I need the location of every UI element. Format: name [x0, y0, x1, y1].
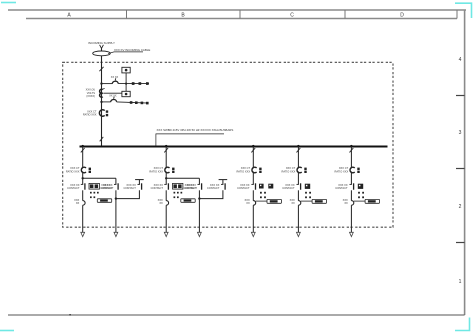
wire: branch 2 to terminals [117, 102, 149, 103]
zone tick 3/2 [456, 168, 465, 170]
relay R3a [259, 184, 264, 189]
zone band bottom rule [26, 18, 457, 20]
terminal T5 [135, 101, 138, 104]
isolating slash F5 [350, 148, 354, 152]
current transformer CT F2 [165, 167, 170, 173]
wire: F1 way b upper [115, 178, 117, 184]
svg-text:RATIO XXX: RATIO XXX [236, 169, 250, 173]
zone tick 2/1 [456, 242, 465, 244]
circuit breaker Q4 drawout contact [297, 183, 301, 189]
fuse-switch F1b [111, 97, 117, 103]
wire: metering branch 2 [102, 101, 111, 103]
outgoing arrow F4 [297, 232, 301, 236]
relay R1 contacts row 1 [90, 192, 99, 194]
node: bus tap F5 [350, 145, 353, 148]
sheet bottom border line [8, 314, 465, 316]
dot on bottom border [69, 314, 71, 316]
relay R2 contacts row 1 [174, 192, 183, 194]
node: F1 rail junction [82, 177, 84, 179]
CT F1 secondary terminal a [89, 168, 91, 170]
wire: F3 drop from bus [252, 146, 254, 167]
wire: branch 1 to terminals [118, 83, 149, 85]
relay R2 [173, 183, 183, 189]
relay R4 contacts [305, 192, 311, 198]
relay R3b [268, 184, 273, 189]
circuit breaker Q3 drawout contact [251, 183, 255, 189]
current transformer CT F5 [350, 167, 355, 173]
svg-text:XX XX: XX XX [111, 76, 119, 79]
zone separator A|B [126, 10, 128, 19]
wire: F2 way b lower [198, 190, 200, 232]
CT F4 secondary terminal b [304, 171, 306, 173]
circuit breaker Q1a drawout contact [81, 183, 85, 189]
wire: F2 way a lower [165, 205, 167, 232]
svg-text:CONTACT: CONTACT [184, 186, 197, 190]
node: bus tap F4 [297, 145, 300, 148]
wire: F4 mid [297, 190, 299, 200]
CT0 secondary terminal b [106, 114, 108, 116]
current transformer CT0 (incomer) [99, 110, 104, 116]
node: branch1 / meter wire junction [125, 83, 127, 85]
relay R1 [89, 183, 99, 189]
sheet right border line [464, 10, 466, 315]
svg-text:CONTACT: CONTACT [151, 186, 164, 190]
svg-text:B: B [181, 12, 185, 18]
node: F2 rail junction [165, 177, 167, 179]
CT F5 secondary terminal a [357, 168, 359, 170]
svg-text:4: 4 [459, 57, 462, 63]
svg-text:XX: XX [246, 201, 250, 205]
main busbar [80, 146, 388, 148]
circuit breaker Q1b drawout contact [114, 183, 118, 189]
terminal T7 [146, 102, 149, 105]
wire: F2c stub lower [199, 190, 223, 198]
meter M2 [122, 91, 130, 96]
CT F4 secondary terminal a [304, 168, 306, 170]
wire: F4 drop from bus [297, 146, 299, 167]
CT F3 secondary terminal b [259, 171, 261, 173]
spare way F2c fixed contact bar [219, 179, 228, 181]
svg-text:XXX KV INCOMING CABLE: XXX KV INCOMING CABLE [114, 48, 150, 52]
relay R4 [305, 184, 310, 189]
isolating slash F3 [251, 148, 255, 152]
outgoing arrow F1b [114, 232, 118, 236]
outgoing arrow F3 [251, 232, 255, 236]
wire: meter tie F3 [256, 200, 267, 202]
svg-text:RATIO XXX: RATIO XXX [282, 169, 296, 173]
wire: metering branch 1 [102, 83, 113, 85]
breaker Q4 bottom contact [298, 201, 300, 206]
svg-text:CONTACT: CONTACT [282, 186, 295, 190]
zone tick 4/3 [456, 95, 465, 97]
node: metering branch 1 tap [100, 82, 102, 84]
current transformer CT F3 [252, 167, 257, 173]
svg-text:XX: XX [291, 201, 295, 205]
breaker Q1a bottom contact [83, 201, 85, 206]
relay R3 contacts [260, 192, 266, 198]
registration mark bottom-right (cyan) [455, 318, 470, 331]
svg-text:CONTACT: CONTACT [335, 186, 348, 190]
svg-text:CONTACT: CONTACT [123, 186, 136, 190]
circuit breaker Q2a drawout contact [164, 183, 168, 189]
svg-text:CONTACT: CONTACT [100, 186, 113, 190]
wire: F3 lower [252, 205, 254, 232]
incomer isolating slash [100, 137, 104, 141]
outgoing arrow F2b [198, 232, 202, 236]
wire: F1 CT to rail [82, 173, 84, 185]
circuit breaker Q2b drawout contact [198, 183, 202, 189]
svg-text:D: D [400, 12, 404, 18]
cable core slash [99, 67, 103, 71]
current transformer CT F4 [297, 167, 302, 173]
zone separator B|C [239, 10, 241, 19]
terminal T6 [141, 102, 144, 105]
svg-text:CONTACT: CONTACT [67, 186, 80, 190]
wire: F2c stub upper [222, 180, 224, 185]
fuse-switch F1a [112, 78, 118, 84]
svg-text:C: C [290, 12, 294, 18]
spare way F1c fixed contact bar [135, 179, 144, 181]
zone separator right end [456, 10, 458, 19]
meter M F2 [181, 199, 195, 203]
svg-text:3: 3 [459, 130, 462, 136]
node: bus tap F1 [81, 145, 84, 148]
meter M F3 [267, 199, 281, 203]
svg-text:1: 1 [459, 279, 462, 285]
CT F5 secondary terminal b [357, 171, 359, 173]
wire: F5 mid [350, 190, 352, 200]
CT F1 secondary terminal b [89, 171, 91, 173]
svg-text:CONTACT: CONTACT [207, 186, 220, 190]
wire: F1 way b lower [115, 190, 117, 232]
svg-text:A: A [67, 12, 71, 18]
wire: F2 top rail [166, 177, 199, 179]
zone separator C|D [344, 10, 346, 19]
wire: F1c stub lower [116, 190, 139, 198]
meter M F4 [312, 199, 326, 203]
breaker Q3 bottom contact [253, 201, 255, 206]
node: bus tap F3 [252, 145, 255, 148]
relay R5 contacts [358, 192, 364, 198]
wire: F5 CT to breaker [350, 173, 352, 185]
wire: meter M1 to meter M2 [125, 73, 127, 91]
svg-text:INCOMING SUPPLY: INCOMING SUPPLY [88, 41, 115, 45]
meter M1 [122, 67, 130, 73]
terminal T1 [132, 82, 135, 85]
node: F1 spare tie junction [115, 197, 117, 199]
svg-text:XXX CT: XXX CT [241, 166, 251, 170]
breaker Q2a bottom contact [166, 201, 168, 206]
relay R1 contacts row 2 [90, 196, 95, 198]
relay R2 contacts row 2 [174, 196, 179, 198]
svg-text:XXX CT: XXX CT [70, 166, 80, 170]
terminal T3 [146, 82, 149, 85]
svg-text:(XXXX): (XXXX) [86, 94, 95, 98]
switchboard enclosure (dashed) [63, 62, 393, 227]
wire: F4 CT to breaker [297, 173, 299, 185]
incoming feeder wire [101, 48, 103, 146]
registration mark top-right (cyan) [455, 3, 472, 18]
voltage transformer VT1 [100, 88, 105, 97]
svg-text:RATIO XXX: RATIO XXX [149, 169, 163, 173]
meter M F5 [365, 199, 379, 203]
wire: F1 top rail [83, 177, 116, 179]
node: F2 spare tie junction [198, 197, 200, 199]
wire: meter tie F5 [354, 200, 365, 202]
svg-text:XX: XX [344, 201, 348, 205]
wire: F2 CT to rail [165, 173, 167, 185]
CT F2 secondary terminal a [172, 168, 174, 170]
terminal T4 [130, 101, 133, 104]
wire: F2 drop from bus [165, 146, 167, 167]
cable termination ellipse [93, 51, 111, 56]
terminal T2 [139, 82, 142, 85]
wire: F1 way a lower [82, 205, 84, 232]
wire: F2 way a mid [165, 190, 167, 200]
CT0 secondary terminal a [106, 110, 108, 112]
svg-text:XX XX: XX XX [109, 94, 117, 97]
registration mark bottom-left (cyan) [0, 330, 14, 332]
meter M F1 [97, 199, 111, 203]
wire: F5 drop from bus [350, 146, 352, 167]
node: bus tap F2 [165, 145, 168, 148]
wire: meter tie F4 [301, 200, 312, 202]
isolating slash F4 [297, 148, 301, 152]
wire: F2 way b upper [198, 178, 200, 184]
svg-text:RATIO XXX: RATIO XXX [66, 169, 80, 173]
wire: F3 CT to breaker [252, 173, 254, 185]
wire: F1 way a mid [82, 190, 84, 200]
CT F2 secondary terminal b [172, 171, 174, 173]
wire: F3 mid [252, 190, 254, 200]
wire: F4 lower [297, 205, 299, 232]
svg-text:XX: XX [76, 201, 80, 205]
svg-text:XXX CT: XXX CT [286, 166, 296, 170]
busbar label leader [156, 134, 224, 146]
wire: F1c stub upper [138, 180, 140, 185]
incoming cable leader [108, 52, 143, 54]
svg-text:XX: XX [159, 201, 163, 205]
CT F3 secondary terminal a [259, 168, 261, 170]
incoming supply arrow [100, 45, 104, 49]
outgoing arrow F5 [350, 232, 354, 236]
relay R5 [358, 184, 363, 189]
circuit breaker Q1c drawout contact [138, 183, 142, 189]
circuit breaker Q2c drawout contact [221, 183, 225, 189]
wire: F1 drop from bus [82, 146, 84, 167]
wire: VT to meter M2 [103, 92, 122, 94]
svg-text:2: 2 [459, 204, 462, 210]
sheet top border line [8, 9, 466, 11]
outgoing arrow F2a [164, 232, 168, 236]
outgoing arrow F1a [81, 232, 85, 236]
breaker Q5 bottom contact [351, 201, 353, 206]
isolating slash F2 [164, 148, 168, 152]
circuit breaker Q5 drawout contact [350, 183, 354, 189]
svg-text:XXX CT: XXX CT [339, 166, 349, 170]
svg-text:XXX CT: XXX CT [154, 166, 164, 170]
node: metering branch 2 tap [100, 101, 102, 103]
registration mark top-left (cyan) [1, 2, 16, 4]
svg-text:XXX SWBD 415V 3PH 4W 50 HZ XX/: XXX SWBD 415V 3PH 4W 50 HZ XX/XXX XXkA B… [157, 128, 234, 132]
isolating slash F1 [81, 148, 85, 152]
current transformer CT F1 [81, 167, 86, 173]
svg-text:RATIO XXX: RATIO XXX [83, 113, 97, 117]
svg-text:CONTACT: CONTACT [237, 186, 250, 190]
wire: F5 lower [350, 205, 352, 232]
svg-text:RATIO XXX: RATIO XXX [335, 169, 349, 173]
